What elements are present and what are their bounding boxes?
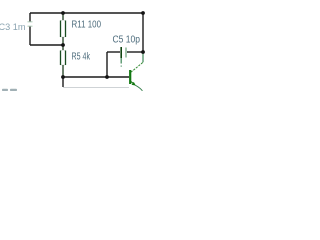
svg-text:R11 100: R11 100	[72, 20, 102, 31]
wire C5 left horizontal	[107, 51, 120, 53]
capacitor C3 (plates, mostly cropped/faint)	[28, 22, 33, 26]
emitter line	[131, 81, 135, 84]
capacitor C5 (right plate)	[125, 48, 127, 58]
wire left vertical lower (from C3 plate)	[29, 27, 31, 45]
wire base rail	[63, 76, 129, 78]
cropped text bottom-left	[2, 89, 17, 91]
wire left vertical upper (to C3 plate)	[29, 13, 31, 21]
capacitor C5 (left plate, overlaps collector stub)	[120, 47, 122, 58]
svg-text:C5 10p: C5 10p	[113, 35, 141, 46]
transistor Q1 (npn)	[130, 62, 143, 84]
node dot (143,52)	[141, 50, 145, 54]
resistor R11 (box)	[61, 21, 66, 38]
base bar	[129, 70, 131, 84]
node dot (143,13)	[141, 11, 145, 15]
wire right rail	[142, 13, 144, 53]
wire top rail	[30, 12, 143, 14]
wire R5 top lead	[62, 45, 64, 50]
wire bottom stub	[62, 77, 64, 87]
svg-text:C3 1m: C3 1m	[0, 22, 26, 32]
wire C5 right horizontal	[127, 51, 143, 53]
svg-text:R5 4k: R5 4k	[72, 52, 91, 63]
wire R11 bottom lead	[62, 37, 64, 45]
resistor R5 (box)	[61, 51, 66, 66]
node dot (63,13)	[61, 11, 65, 15]
wire faint bottom horizontal	[63, 87, 129, 89]
node dot (63,77)	[61, 75, 65, 79]
emitter arrow	[132, 82, 136, 86]
wire R5 bottom lead	[62, 65, 64, 77]
wire R11 top lead	[62, 13, 64, 20]
emitter tail wire (curved)	[135, 85, 142, 91]
node dot (63,45)	[61, 43, 65, 47]
node dot (107,77)	[105, 75, 109, 79]
collector line	[131, 62, 143, 72]
wire C5 left stub (vertical)	[106, 52, 108, 77]
wire mid horizontal	[30, 44, 63, 46]
transistor Q1 collector lead (green, below node)	[142, 53, 144, 62]
